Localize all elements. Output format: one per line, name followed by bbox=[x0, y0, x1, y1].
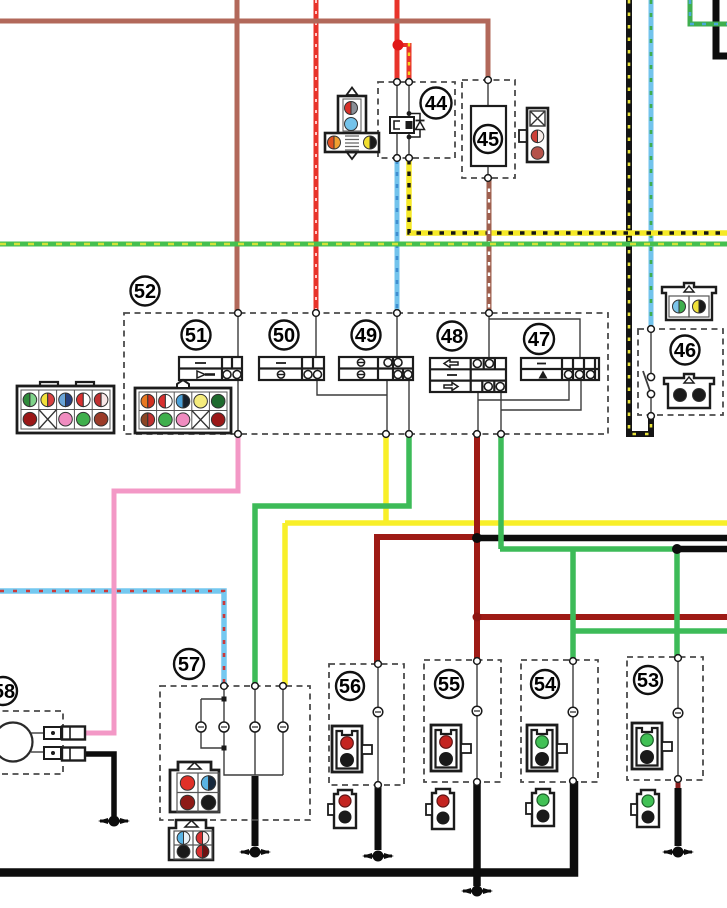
label 57 bbox=[174, 649, 204, 679]
wire skyblue/green vertical to switch 46 top bbox=[649, 0, 654, 329]
ground symbol 57 bbox=[239, 847, 271, 858]
turn indicator 48 bbox=[430, 358, 506, 392]
front flasher 56 dashed box bbox=[329, 664, 404, 785]
wire black stem below 53 with dark red stub bbox=[676, 780, 681, 790]
wire green/blue corner top right bbox=[690, 0, 727, 24]
junction dark red dot 477,617 bbox=[473, 613, 482, 622]
wire thin red feed inside 52 bbox=[316, 313, 387, 395]
handlebar switch 57 dashed box bbox=[160, 686, 310, 820]
label 56 bbox=[336, 672, 364, 700]
label 48 bbox=[438, 322, 467, 351]
connector block inside 52 bbox=[135, 380, 231, 433]
pins 55 bbox=[474, 658, 481, 665]
wire red/yellow branch into relay 44 bbox=[397, 43, 409, 47]
lamp connector inside 56 bbox=[332, 726, 372, 772]
wire pink from box52 to horn 58 bbox=[85, 434, 238, 733]
svg-text:52: 52 bbox=[134, 281, 156, 303]
pins 57 bbox=[221, 683, 228, 690]
svg-text:58: 58 bbox=[0, 681, 15, 703]
ground symbol 55 below bus bbox=[461, 886, 493, 897]
pins on box 52 bbox=[235, 310, 242, 317]
pins relay 44 bbox=[394, 79, 401, 86]
resistor unit 45 dashed box bbox=[462, 80, 515, 178]
svg-text:50: 50 bbox=[273, 325, 295, 347]
wire green from box52 to handlebar switch 57 bbox=[255, 434, 409, 686]
flasher relay 44 dashed box bbox=[378, 82, 455, 158]
bullet contact 56 bbox=[373, 707, 383, 717]
svg-text:46: 46 bbox=[674, 340, 696, 362]
horn terminals 58 bbox=[31, 727, 85, 761]
wire black from horn to ground bbox=[85, 754, 114, 816]
lamp connector below 53 bbox=[631, 790, 659, 827]
pins 56 bbox=[375, 661, 382, 668]
wire black horizontal right at 538 bbox=[477, 535, 727, 542]
wire black stem below 55 bbox=[473, 782, 481, 886]
lamp connector below 56 bbox=[328, 790, 356, 828]
meter assembly box 52 dashed bbox=[124, 313, 608, 434]
wire brown vertical to box52 pin bbox=[235, 0, 240, 311]
wire yellow from box52 left-down-right bus bbox=[285, 434, 727, 686]
switch contacts 57 bbox=[196, 722, 206, 732]
horn body 58 bbox=[0, 723, 33, 762]
wire brown horizontal with corner down to 45 bbox=[0, 21, 488, 80]
front flasher 55 dashed box bbox=[424, 660, 501, 782]
turn switch 46 dashed box bbox=[638, 329, 723, 415]
label 46 bbox=[671, 336, 700, 365]
lamp connector inside 55 bbox=[431, 725, 471, 771]
wire thin network inside 57 bbox=[201, 686, 283, 775]
wire blue/red horizontal into box 57 bbox=[0, 591, 224, 686]
wire thin inside 56 bbox=[377, 664, 379, 785]
wire black stem below 56 bbox=[375, 785, 382, 850]
wire green from box52 down to rear flashers 53 54 bbox=[500, 434, 727, 661]
wire green/yellow horizontal full width bbox=[0, 242, 727, 247]
ground symbol horn bbox=[98, 816, 130, 827]
wire thick black corner top right bbox=[716, 0, 727, 56]
svg-text:55: 55 bbox=[438, 674, 460, 696]
bullet contact 54 bbox=[568, 707, 578, 717]
lamp connector below 54 bbox=[526, 789, 554, 826]
svg-text:49: 49 bbox=[355, 325, 377, 347]
horn 58 dashed box bbox=[0, 711, 63, 774]
wire skyblue from relay 44 to box52 bbox=[395, 160, 400, 311]
label 55 bbox=[435, 670, 463, 698]
label 45 bbox=[474, 125, 502, 153]
label 54 bbox=[531, 670, 559, 698]
wire thin outputs of 48 bbox=[478, 392, 501, 434]
wire thin brown/white feed inside 52 to 48 and 47 bbox=[489, 313, 580, 358]
wire thin blue feed inside 52 bbox=[387, 313, 409, 434]
wire red vertical into relay 44 bbox=[395, 0, 400, 82]
wire yellow/black from relay 44 down and right bbox=[409, 160, 727, 233]
connector left of relay 44 bbox=[325, 88, 379, 160]
wire thin inside 53 bbox=[677, 658, 679, 779]
bullet contact 53 bbox=[673, 708, 683, 718]
svg-text:56: 56 bbox=[339, 676, 361, 698]
rear flasher 54 dashed box bbox=[521, 660, 598, 782]
pins 53 bbox=[675, 655, 682, 662]
pins 54 bbox=[570, 658, 577, 665]
pins 46 bbox=[648, 326, 655, 333]
label 58 bbox=[0, 677, 17, 705]
wire black/yellow vertical jog to switch 46 bottom bbox=[629, 0, 651, 434]
pins 45 bbox=[485, 77, 492, 84]
wire thin verticals inside 44 bbox=[397, 82, 409, 158]
lamp connector below 55 bbox=[426, 789, 454, 829]
label 50 bbox=[270, 321, 299, 350]
wire brown/white from 45 to box52 bbox=[487, 178, 492, 311]
junction black dot 677,549 bbox=[672, 544, 682, 554]
rear flasher 53 dashed box bbox=[627, 657, 703, 780]
label 49 bbox=[352, 321, 381, 350]
indicator lamp 50 bbox=[259, 357, 324, 380]
label 53 bbox=[634, 666, 662, 694]
junction red dot bbox=[393, 40, 404, 51]
svg-text:53: 53 bbox=[637, 670, 659, 692]
wire dark red from box52 down with branch to 56 and right bus bbox=[377, 434, 727, 664]
wire thin inside 45 bbox=[487, 80, 489, 178]
ground symbol 56 bbox=[362, 851, 394, 862]
label 51 bbox=[182, 321, 211, 350]
lamp connector inside 53 bbox=[632, 723, 672, 769]
wire thin inside 55 bbox=[476, 661, 478, 782]
wire black ground bus bottom with riser to 54 bbox=[0, 781, 574, 873]
relay coil 44 bbox=[390, 117, 414, 133]
label 44 bbox=[421, 88, 452, 119]
svg-text:44: 44 bbox=[425, 93, 448, 115]
svg-text:48: 48 bbox=[441, 326, 463, 348]
label 47 bbox=[524, 324, 554, 354]
bullet contact 55 bbox=[472, 706, 482, 716]
connector right of 45 bbox=[519, 108, 548, 162]
wire thin brown feed inside 52 bbox=[237, 313, 239, 434]
wire thin outputs of 47 bbox=[478, 381, 581, 410]
svg-text:51: 51 bbox=[185, 325, 207, 347]
wire red/white vertical to box52 pin bbox=[314, 0, 319, 311]
wire black horizontal right at 549 bbox=[677, 546, 727, 553]
connector below 46 bbox=[664, 374, 714, 408]
connector block inside 57 bbox=[170, 762, 219, 812]
indicator lamp 49 bbox=[339, 357, 413, 380]
svg-text:54: 54 bbox=[534, 674, 557, 696]
svg-text:47: 47 bbox=[528, 329, 550, 351]
switch lever 46 bbox=[643, 329, 655, 416]
lamp connector inside 54 bbox=[527, 725, 567, 771]
wire thin inside 54 bbox=[572, 661, 574, 781]
junction black dot 477,538 bbox=[472, 533, 482, 543]
diode across relay 44 bbox=[407, 111, 425, 139]
resistor 45 body bbox=[471, 106, 506, 166]
connector block below 57 bbox=[169, 820, 213, 860]
indicator lamp 51 bbox=[179, 357, 242, 380]
svg-text:45: 45 bbox=[477, 129, 499, 151]
ground symbol 53 bbox=[662, 847, 694, 858]
connector block left outside 52 bbox=[17, 382, 114, 433]
hazard indicator 47 bbox=[521, 358, 599, 380]
svg-text:57: 57 bbox=[178, 654, 200, 676]
wire black stem below 57 bbox=[252, 776, 259, 846]
connector above 46 bbox=[662, 283, 716, 320]
label 52 bbox=[131, 277, 160, 306]
